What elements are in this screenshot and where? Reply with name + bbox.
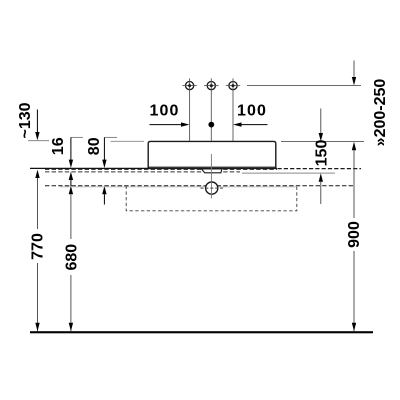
- hidden frame dashed line: [45, 171, 240, 173]
- drain circle: [206, 182, 218, 194]
- extension tick for 16: [71, 136, 83, 138]
- dimension 100 right: [233, 103, 268, 127]
- svg-text:80: 80: [86, 137, 103, 155]
- faucet hole 2: [204, 78, 218, 140]
- faucet hole 3: [226, 78, 240, 140]
- faucet hole 1: [182, 78, 196, 140]
- dimension 16: [50, 137, 73, 186]
- svg-text:100: 100: [150, 103, 180, 120]
- dimension 900: [346, 142, 363, 331]
- drain trapezoid boss: [202, 169, 222, 173]
- dimension 200-250 upper line: [352, 61, 389, 147]
- dimension 150: [314, 109, 331, 205]
- dimension 770: [29, 170, 46, 332]
- svg-text:100: 100: [237, 103, 267, 120]
- svg-text:16: 16: [50, 137, 67, 155]
- drain axis dashed line: [45, 185, 354, 187]
- basin top extension line left: [111, 140, 145, 142]
- dimension 100 left: [150, 103, 190, 127]
- svg-text:150: 150: [314, 140, 331, 167]
- basin bottom edge: [148, 166, 276, 168]
- washbasin body: [148, 141, 276, 168]
- hidden frame top gray line: [60, 186, 296, 188]
- drain vertical centerline: [210, 154, 212, 199]
- countertop underside dashed line: [45, 168, 277, 170]
- console dashed rectangle: [126, 186, 297, 211]
- svg-text:770: 770: [29, 233, 46, 260]
- drain horizontal crosshair: [201, 187, 224, 189]
- extension tick for 80: [104, 136, 117, 138]
- faucet reference line: [247, 85, 361, 87]
- svg-text:900: 900: [346, 221, 363, 248]
- basin top extension line right: [281, 141, 364, 143]
- svg-text:~130: ~130: [17, 102, 34, 138]
- console top solid line: [30, 167, 277, 169]
- dimension 80: [86, 137, 107, 204]
- dimension 680: [64, 186, 81, 331]
- dimension ~130: [17, 102, 49, 140]
- svg-text:»200-250: »200-250: [372, 79, 389, 147]
- console top dashed continuation: [278, 168, 362, 170]
- floor line: [30, 331, 373, 333]
- 150 bottom extension line: [242, 172, 335, 174]
- svg-text:680: 680: [64, 244, 81, 271]
- center mark dot: [208, 122, 214, 128]
